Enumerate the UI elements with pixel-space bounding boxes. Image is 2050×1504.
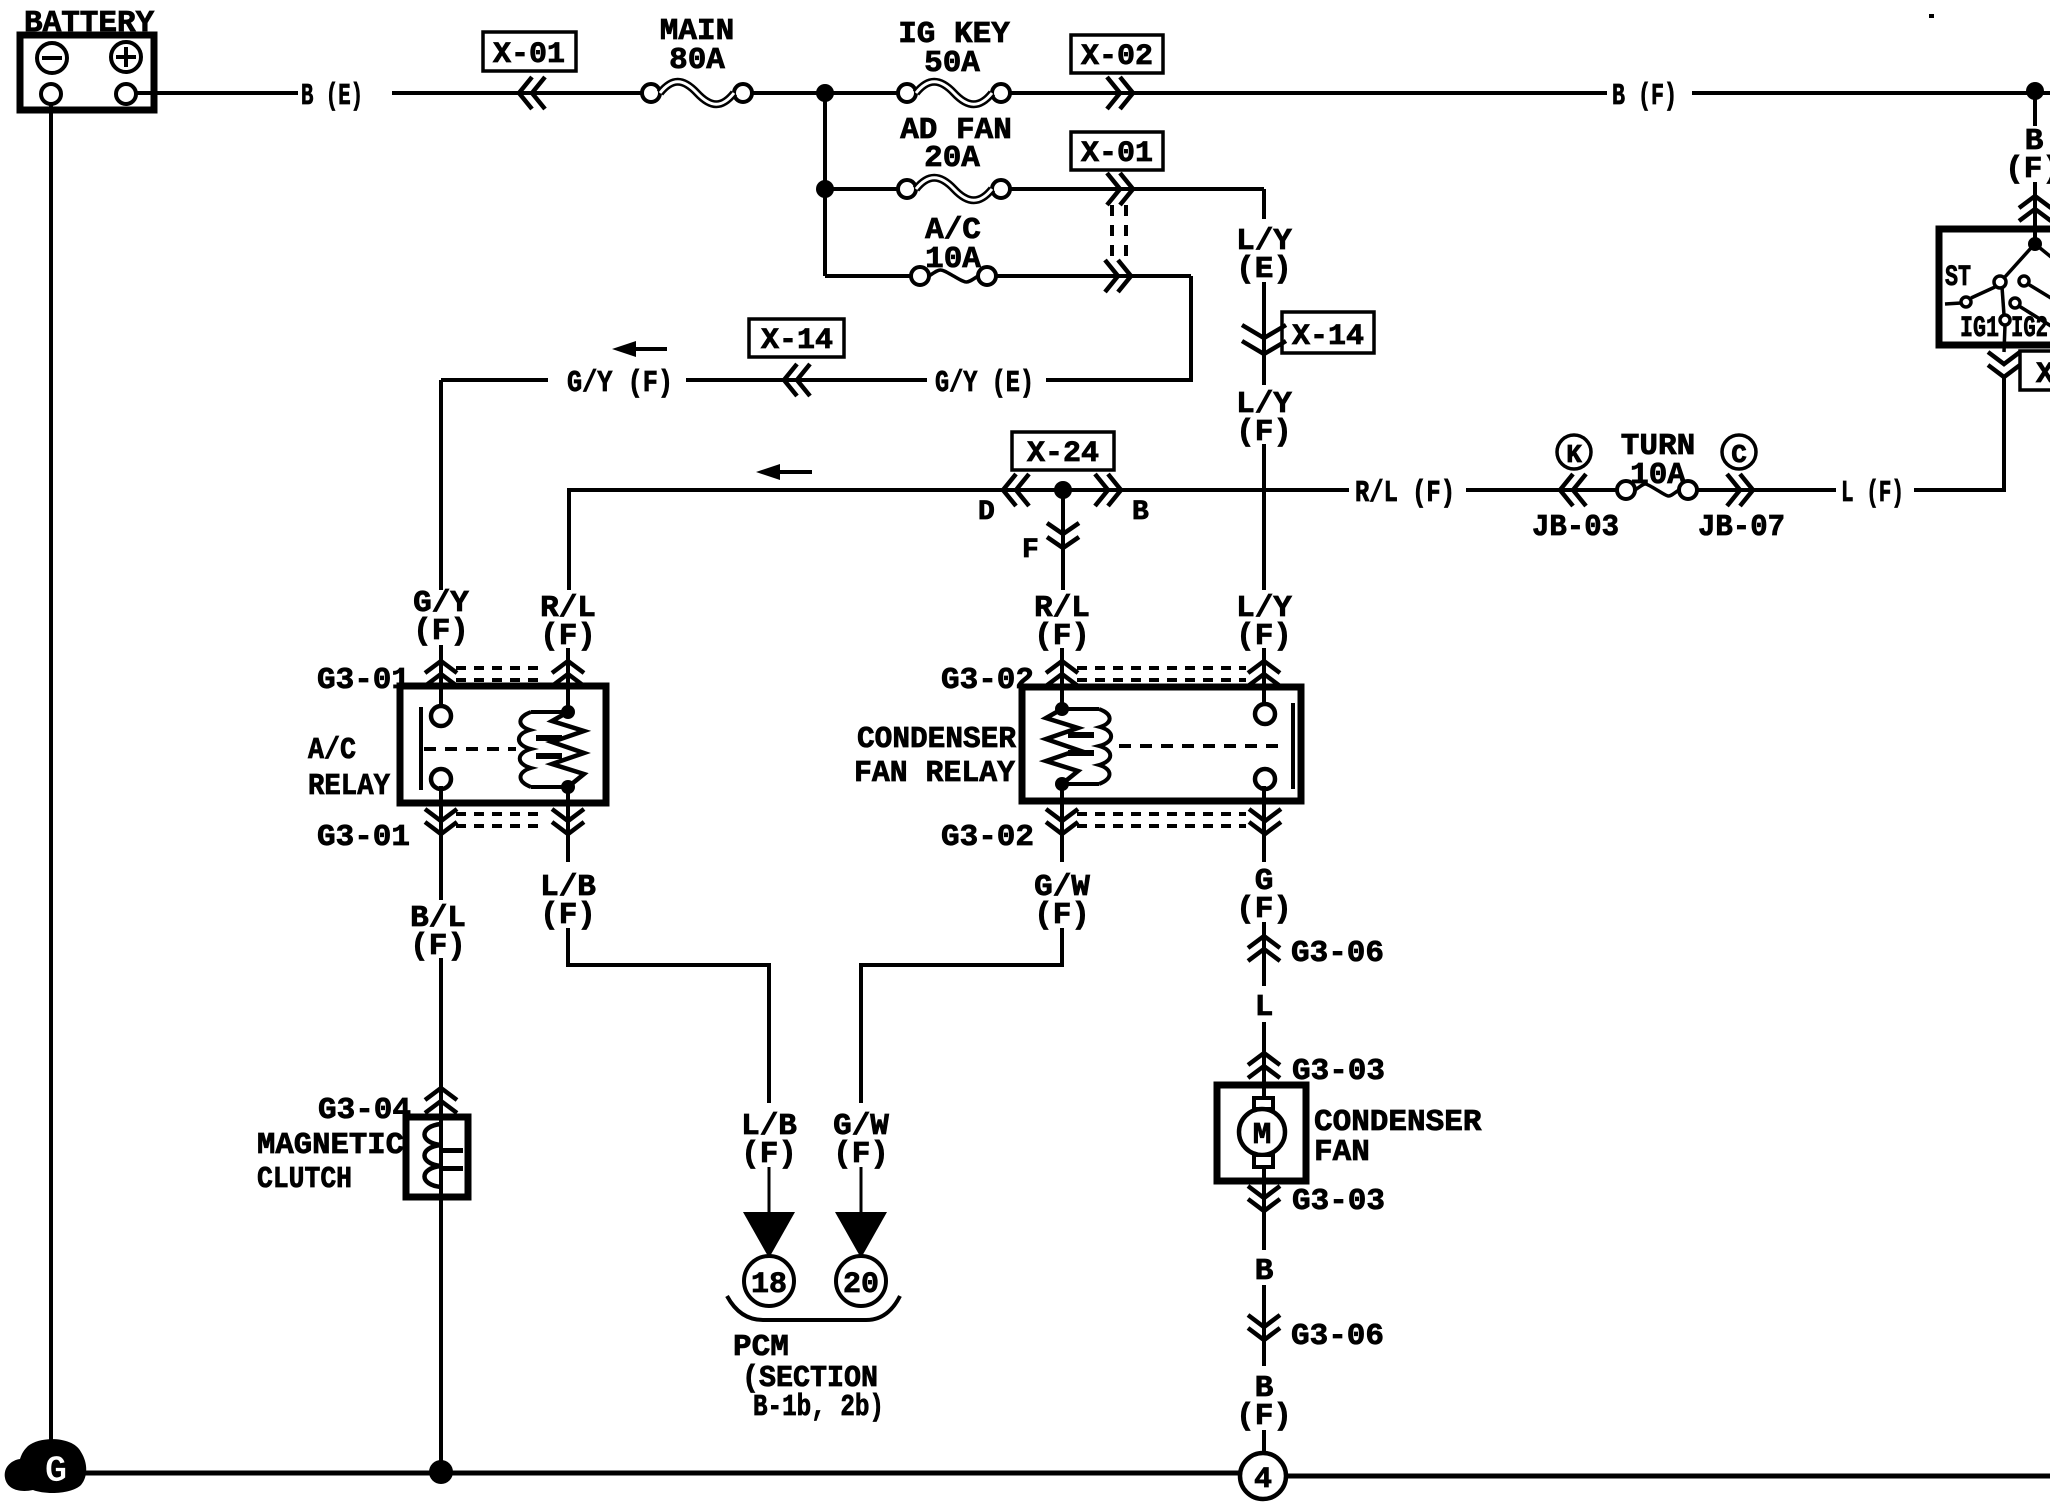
svg-text:X-14: X-14 xyxy=(761,324,833,358)
svg-text:G3-04: G3-04 xyxy=(318,1093,411,1128)
svg-text:80A: 80A xyxy=(669,43,725,78)
wire G/Y(E) vertical drop xyxy=(1189,276,1193,382)
connector A/C coil top chevron xyxy=(552,661,584,686)
wire G to G3-06 xyxy=(1262,922,1266,986)
relay A/C linkage dashed xyxy=(424,747,516,751)
connector X-14 box right xyxy=(1282,312,1374,353)
wire B/L upper xyxy=(439,786,443,900)
connector JB-07 chevron xyxy=(1727,474,1753,506)
connector X-14 left chevron xyxy=(784,364,810,396)
svg-text:B: B xyxy=(1255,1254,1274,1289)
wire R/L into A/C relay xyxy=(566,648,570,714)
svg-text:X-14: X-14 xyxy=(1292,320,1364,354)
wire L/Y middle xyxy=(1262,444,1266,590)
svg-text:IG1: IG1 xyxy=(1960,312,1999,346)
wire clutch to ground xyxy=(439,1197,443,1472)
wire G/Y middle xyxy=(686,378,927,382)
connector X-24 box xyxy=(1012,432,1114,470)
fuse IG KEY 50A xyxy=(898,84,916,102)
svg-text:50A: 50A xyxy=(924,46,980,81)
wire IG1 down xyxy=(2004,325,2005,352)
connector G3-01 top dashes xyxy=(456,666,545,670)
wire to ignition switch xyxy=(2033,182,2037,246)
wire ground bus left xyxy=(80,1471,1240,1476)
connector G3-01 bottom chevron xyxy=(425,809,457,834)
svg-text:G3-03: G3-03 xyxy=(1292,1184,1385,1219)
svg-text:RELAY: RELAY xyxy=(308,769,390,804)
connector X-02 box xyxy=(1071,35,1163,73)
wire L/Y top xyxy=(1262,189,1266,219)
svg-text:L (F): L (F) xyxy=(1841,476,1904,511)
ignition switch internals xyxy=(2028,237,2042,251)
connector X-01 box xyxy=(483,32,576,71)
relay condenser linkage dashed xyxy=(1119,744,1283,748)
connector X-24 chevron right xyxy=(1095,474,1121,506)
ground connector 4 xyxy=(1240,1453,1286,1499)
wire B(F) to ignition xyxy=(1692,91,2050,95)
svg-text:X-24: X-24 xyxy=(1027,437,1099,471)
svg-text:(F): (F) xyxy=(741,1137,797,1172)
connector G3-01 top chevron xyxy=(425,661,457,686)
connector X-02 chevron xyxy=(1107,77,1133,109)
svg-text:PCM: PCM xyxy=(733,1330,789,1365)
PCM pin 18 xyxy=(744,1256,794,1306)
wire G/W upper xyxy=(1060,782,1064,862)
junction box C terminal xyxy=(1722,435,1756,469)
wire R/L to relay xyxy=(1060,648,1064,705)
svg-text:20A: 20A xyxy=(924,141,980,176)
relay condenser pin bottom xyxy=(1255,769,1275,789)
battery lower-left pin xyxy=(41,84,61,104)
svg-text:X-02: X-02 xyxy=(1081,40,1153,74)
svg-text:B (E): B (E) xyxy=(301,79,363,114)
battery negative terminal xyxy=(37,43,67,73)
svg-text:X: X xyxy=(2036,358,2050,392)
svg-text:G/Y (E): G/Y (E) xyxy=(935,366,1034,401)
wire L/Y to relay xyxy=(1262,648,1266,705)
magnetic clutch coil xyxy=(439,1117,443,1197)
svg-text:CONDENSER: CONDENSER xyxy=(857,722,1016,757)
connector X-14 right chevron xyxy=(1242,325,1286,354)
wire G relay down xyxy=(1262,786,1266,862)
relay condenser coil xyxy=(1055,702,1069,716)
wire to AD FAN fuse xyxy=(825,187,898,191)
svg-text:4: 4 xyxy=(1254,1463,1272,1497)
relay condenser right bottom chevron xyxy=(1249,809,1281,834)
node junction main xyxy=(816,84,834,102)
wire G/Y(F) xyxy=(441,378,548,382)
svg-text:(F): (F) xyxy=(1236,1399,1292,1434)
svg-text:MAGNETIC: MAGNETIC xyxy=(257,1128,404,1163)
wire L(F) to ignition xyxy=(1914,488,2004,492)
wire to ground connector 4 xyxy=(1262,1430,1266,1454)
connector G3-03 lower chevron xyxy=(1248,1186,1280,1211)
wire R/L(F) horizontal xyxy=(569,488,1349,492)
svg-text:20: 20 xyxy=(843,1268,879,1302)
relay A/C contact pin top xyxy=(431,706,451,726)
svg-text:G: G xyxy=(45,1450,68,1493)
connector X-01b chevron xyxy=(1107,173,1133,205)
magnetic clutch box xyxy=(406,1117,468,1197)
battery lower-right pin xyxy=(116,84,136,104)
wire L segment xyxy=(1262,1022,1266,1085)
wire B(E) from battery xyxy=(136,91,298,95)
battery xyxy=(20,35,154,110)
svg-text:BATTERY: BATTERY xyxy=(24,6,155,41)
ignition switch box xyxy=(1939,229,2050,345)
svg-text:FAN: FAN xyxy=(1314,1135,1370,1170)
connector X box right edge xyxy=(2020,351,2050,390)
wire G/Y to relay xyxy=(439,645,443,708)
relay A/C switch bar xyxy=(419,707,423,790)
wire B(F) right xyxy=(1010,91,1607,95)
svg-text:B-1b, 2b): B-1b, 2b) xyxy=(753,1390,884,1425)
relay A/C contact pin bottom xyxy=(431,769,451,789)
wire below motor xyxy=(1262,1181,1266,1250)
node ground junction xyxy=(429,1460,453,1484)
svg-text:FAN RELAY: FAN RELAY xyxy=(854,756,1015,791)
fuse TURN 10A xyxy=(1617,481,1635,499)
svg-text:G/Y (F): G/Y (F) xyxy=(567,366,673,401)
wire battery negative down xyxy=(49,104,53,1448)
connector ignition top chevron xyxy=(2019,196,2050,221)
connector G3-06 lower chevron xyxy=(1248,1315,1280,1340)
svg-text:G3-06: G3-06 xyxy=(1291,1319,1384,1354)
wire B/L to clutch xyxy=(439,958,443,1117)
fuse AD FAN 20A xyxy=(898,180,916,198)
wire TURN to L(F) xyxy=(1697,488,1836,492)
wire L/B to PCM xyxy=(768,1167,771,1214)
wire ground bus right xyxy=(1286,1474,2050,1479)
wire G/Y(E) xyxy=(1046,378,1191,382)
connector G3-03 upper chevron xyxy=(1248,1053,1280,1078)
arrow into PCM pin 20 xyxy=(835,1212,887,1258)
wire L/B upper xyxy=(566,785,570,862)
relay A/C coil bottom chevron xyxy=(552,809,584,834)
wire B(F) ignition drop xyxy=(2033,91,2037,126)
condenser fan motor box xyxy=(1217,1085,1306,1181)
wire R/L down from X-24 xyxy=(1061,490,1065,590)
fuse A/C 10A xyxy=(911,267,929,285)
connector X-01 chevron xyxy=(519,77,545,109)
svg-text:JB-07: JB-07 xyxy=(1698,510,1785,545)
svg-text:(F): (F) xyxy=(410,929,466,964)
connector G3-02 top chevron xyxy=(1046,661,1078,686)
wire G/W to PCM xyxy=(860,1167,863,1214)
svg-text:18: 18 xyxy=(751,1268,787,1302)
node X-24 junction xyxy=(1054,481,1072,499)
relay A/C box xyxy=(400,686,606,803)
svg-text:X-01: X-01 xyxy=(493,38,565,72)
svg-text:R/L (F): R/L (F) xyxy=(1355,476,1455,511)
relay A/C coil xyxy=(561,705,575,719)
wire MAIN to IG KEY xyxy=(752,91,898,95)
arrow into PCM pin 18 xyxy=(743,1212,795,1258)
PCM pin 20 xyxy=(836,1256,886,1306)
svg-text:JB-03: JB-03 xyxy=(1532,510,1619,545)
wire L/Y upper xyxy=(1262,282,1266,385)
svg-text:G3-06: G3-06 xyxy=(1291,936,1384,971)
svg-text:(F): (F) xyxy=(2005,152,2050,187)
connector X-24 down chevron xyxy=(1047,523,1079,548)
wire R/L to TURN fuse xyxy=(1466,488,1617,492)
connector G3-04 chevron xyxy=(425,1088,457,1113)
svg-text:B: B xyxy=(1132,497,1149,528)
svg-text:(F): (F) xyxy=(540,898,596,933)
svg-text:G3-01: G3-01 xyxy=(317,820,410,855)
svg-text:A/C: A/C xyxy=(308,733,356,768)
wire A/C fuse to corner xyxy=(996,274,1191,278)
svg-text:(F): (F) xyxy=(1034,898,1090,933)
svg-text:ST: ST xyxy=(1945,261,1971,295)
arrow direction G/Y xyxy=(632,347,667,351)
battery positive terminal xyxy=(111,42,141,72)
connector JB-03 chevron xyxy=(1560,474,1586,506)
wire fuse-branch vertical xyxy=(823,93,827,276)
node junction ignition feed xyxy=(2026,82,2044,100)
svg-text:C: C xyxy=(1731,440,1747,470)
wire G/Y(F) vertical xyxy=(439,380,443,590)
connector G3-01 bottom dashes xyxy=(456,812,545,816)
svg-text:(F): (F) xyxy=(413,614,469,649)
fuse MAIN 80A xyxy=(642,84,660,102)
svg-text:G3-02: G3-02 xyxy=(941,820,1034,855)
wire L/B jog xyxy=(566,928,570,965)
scan speck xyxy=(1929,14,1934,18)
svg-text:G3-01: G3-01 xyxy=(317,663,410,698)
connector G3-06 upper chevron xyxy=(1248,936,1280,961)
condenser fan motor symbol xyxy=(1262,1085,1266,1098)
svg-text:CLUTCH: CLUTCH xyxy=(257,1162,352,1197)
wire R/L corner down xyxy=(567,488,571,590)
wire AD FAN to L/Y corner xyxy=(1010,187,1264,191)
arrow direction R/L xyxy=(780,470,812,474)
svg-text:F: F xyxy=(1022,535,1039,566)
wire G/W jog xyxy=(1060,928,1064,965)
connector X-01c chevron xyxy=(1105,260,1131,292)
svg-text:B (F): B (F) xyxy=(1612,79,1677,114)
svg-text:D: D xyxy=(978,497,995,528)
connector X-24 chevron left xyxy=(1003,474,1029,506)
svg-text:(E): (E) xyxy=(1236,252,1292,287)
svg-text:(F): (F) xyxy=(1236,892,1292,927)
connector X-01b box xyxy=(1071,132,1163,170)
svg-text:M: M xyxy=(1253,1118,1272,1153)
ground body G symbol xyxy=(5,1439,87,1493)
connector G3-02 top dashes xyxy=(1077,666,1246,670)
connector G3-02 bottom dashes xyxy=(1077,812,1246,816)
connector L/Y relay top chevron xyxy=(1248,661,1280,686)
svg-text:X-01: X-01 xyxy=(1081,137,1153,171)
connector G3-02 bottom chevron xyxy=(1046,809,1078,834)
relay condenser fan box xyxy=(1022,687,1301,801)
svg-text:K: K xyxy=(1566,440,1582,470)
connector ignition bottom chevron xyxy=(1988,352,2020,377)
node junction AD FAN xyxy=(816,180,834,198)
relay condenser pin top xyxy=(1255,704,1275,724)
junction box K terminal xyxy=(1557,435,1591,469)
relay condenser switch bar xyxy=(1291,703,1295,789)
wire B segment xyxy=(1262,1285,1266,1366)
svg-text:(F): (F) xyxy=(833,1137,889,1172)
wire B(E) to MAIN fuse xyxy=(392,91,642,95)
connector X-14 box left xyxy=(749,319,844,357)
svg-text:IG2: IG2 xyxy=(2011,312,2048,346)
wire to A/C fuse xyxy=(825,274,911,278)
connector X-01 dashed link xyxy=(1110,205,1114,260)
svg-text:L: L xyxy=(1255,990,1274,1025)
PCM bracket xyxy=(727,1296,900,1320)
